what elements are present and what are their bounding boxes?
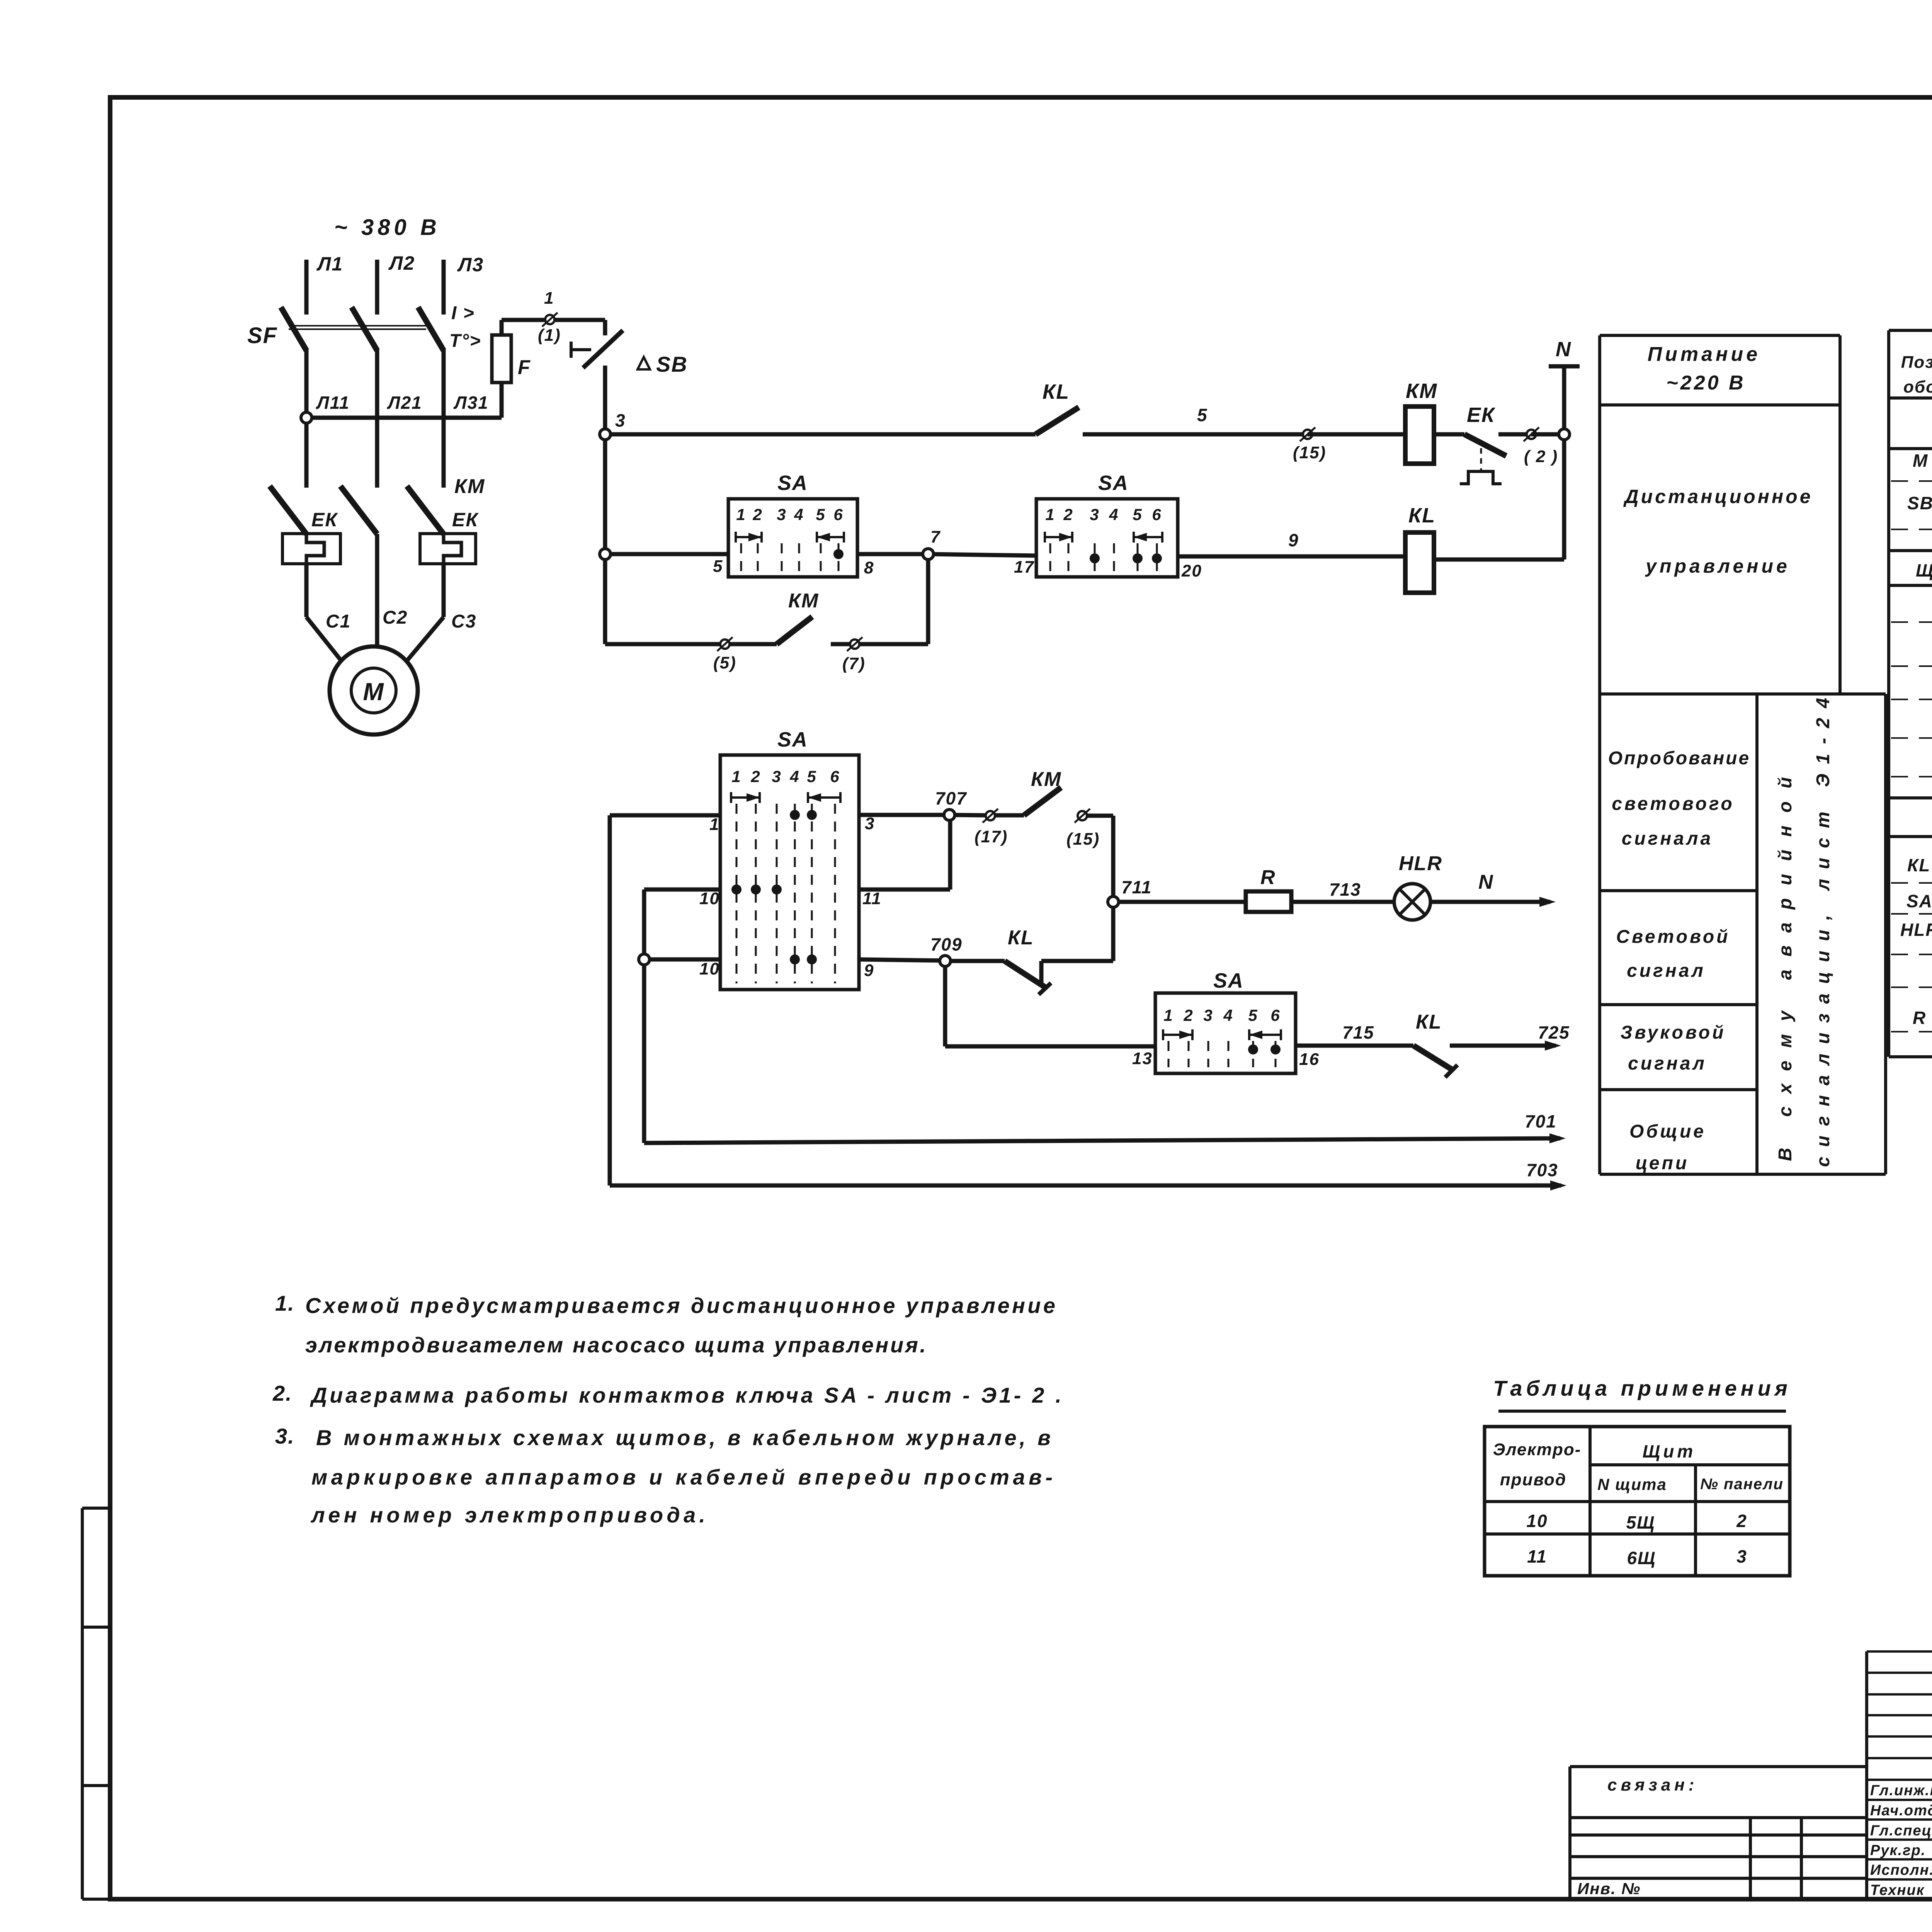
svg-text:Л1: Л1 <box>316 253 343 275</box>
svg-text:Дистанционное: Дистанционное <box>1623 486 1813 507</box>
svg-text:5: 5 <box>1248 1006 1258 1024</box>
svg-text:4: 4 <box>1223 1006 1233 1024</box>
svg-text:~ 380 В: ~ 380 В <box>334 215 440 240</box>
svg-text:SA: SA <box>777 471 808 495</box>
svg-text:НLR: НLR <box>1900 920 1932 940</box>
svg-text:17: 17 <box>1014 558 1034 577</box>
svg-text:3: 3 <box>1203 1006 1213 1024</box>
svg-text:11: 11 <box>862 889 882 908</box>
svg-text:3: 3 <box>615 410 626 430</box>
svg-text:703: 703 <box>1526 1160 1558 1180</box>
svg-text:1: 1 <box>544 289 554 308</box>
svg-text:3: 3 <box>1736 1546 1747 1566</box>
svg-text:711: 711 <box>1121 877 1152 897</box>
svg-text:4: 4 <box>794 505 804 524</box>
svg-text:Л21: Л21 <box>387 393 422 413</box>
svg-text:1.: 1. <box>275 1291 295 1315</box>
svg-text:709: 709 <box>930 934 963 954</box>
svg-text:Нач.отд.: Нач.отд. <box>1870 1803 1932 1819</box>
svg-text:Звуковой: Звуковой <box>1621 1022 1726 1043</box>
svg-text:13: 13 <box>1132 1049 1153 1068</box>
svg-text:SA: SA <box>1098 471 1129 495</box>
svg-text:F: F <box>518 356 531 379</box>
svg-text:1: 1 <box>731 767 741 786</box>
svg-text:(5): (5) <box>713 653 736 672</box>
svg-text:Гл.инж.пр.: Гл.инж.пр. <box>1870 1782 1932 1799</box>
svg-text:5: 5 <box>1197 405 1208 425</box>
svg-text:Позиц.: Позиц. <box>1901 353 1932 372</box>
svg-text:(17): (17) <box>975 827 1008 846</box>
svg-text:КМ: КМ <box>788 590 819 612</box>
svg-text:2: 2 <box>750 767 760 786</box>
svg-text:управление: управление <box>1645 555 1790 577</box>
svg-text:электродвигателем насосасо щ: электродвигателем насосасо щита управлен… <box>305 1333 927 1357</box>
svg-text:цепи: цепи <box>1636 1153 1689 1173</box>
svg-text:КМ: КМ <box>1031 768 1061 791</box>
svg-text:КМ: КМ <box>1406 379 1437 403</box>
svg-text:М: М <box>1913 451 1928 471</box>
svg-text:N: N <box>1556 338 1571 361</box>
svg-text:(7): (7) <box>842 654 866 673</box>
svg-text:(15): (15) <box>1066 830 1100 849</box>
svg-text:Л31: Л31 <box>453 393 489 413</box>
svg-text:маркировке аппаратов и кабе: маркировке аппаратов и кабелей впереди п… <box>311 1465 1054 1489</box>
svg-text:5: 5 <box>1133 505 1142 524</box>
svg-text:Рук.гр.: Рук.гр. <box>1870 1842 1926 1859</box>
svg-text:N щита: N щита <box>1597 1475 1667 1493</box>
svg-text:N: N <box>1478 871 1494 893</box>
svg-text:Щит станций управления (см: Щит станций управления (см табл. примеча… <box>1916 560 1932 580</box>
svg-text:5Щ: 5Щ <box>1626 1512 1655 1532</box>
svg-text:лен номер электропривода.: лен номер электропривода. <box>310 1503 707 1527</box>
svg-text:I >: I > <box>451 303 475 323</box>
svg-text:SA: SA <box>777 728 808 751</box>
svg-text:КL: КL <box>1416 1011 1442 1033</box>
svg-text:С3: С3 <box>451 611 476 632</box>
svg-text:SB: SB <box>656 352 688 376</box>
svg-text:ЕК: ЕК <box>452 509 479 531</box>
svg-text:3: 3 <box>1090 505 1099 524</box>
svg-text:М: М <box>363 678 384 706</box>
svg-text:10: 10 <box>699 889 720 908</box>
svg-text:715: 715 <box>1342 1022 1374 1043</box>
svg-text:6: 6 <box>1270 1006 1280 1024</box>
svg-text:3.: 3. <box>275 1424 295 1448</box>
svg-text:Световой: Световой <box>1616 927 1730 947</box>
svg-text:R: R <box>1913 1008 1926 1028</box>
svg-text:10: 10 <box>1526 1511 1548 1531</box>
svg-text:Щит: Щит <box>1643 1441 1696 1461</box>
svg-text:Схемой предусматривается д: Схемой предусматривается дистанционное у… <box>305 1293 1057 1318</box>
svg-text:5: 5 <box>807 767 816 786</box>
svg-text:С2: С2 <box>383 607 408 628</box>
svg-text:Л11: Л11 <box>316 393 350 413</box>
svg-text:Гл.спец,: Гл.спец, <box>1870 1823 1932 1839</box>
svg-text:16: 16 <box>1299 1050 1320 1069</box>
svg-text:сигнал: сигнал <box>1627 961 1706 981</box>
svg-text:связан:: связан: <box>1607 1776 1698 1794</box>
svg-text:Исполн.: Исполн. <box>1870 1862 1932 1878</box>
svg-text:ЕК: ЕК <box>1467 403 1496 427</box>
svg-text:3: 3 <box>865 814 875 833</box>
svg-text:SA: SA <box>1213 969 1244 992</box>
svg-text:Инв. №: Инв. № <box>1577 1879 1641 1898</box>
svg-text:2: 2 <box>1736 1511 1747 1531</box>
svg-text:Опробование: Опробование <box>1608 748 1750 769</box>
svg-text:Электро-: Электро- <box>1493 1440 1582 1459</box>
svg-text:6: 6 <box>830 767 840 786</box>
svg-text:( 2 ): ( 2 ) <box>1524 447 1558 466</box>
svg-text:КL: КL <box>1907 855 1930 875</box>
svg-text:светового: светового <box>1612 794 1734 814</box>
svg-text:T°>: T°> <box>449 331 481 351</box>
svg-text:3: 3 <box>777 505 786 524</box>
svg-text:707: 707 <box>935 788 967 808</box>
svg-text:КL: КL <box>1008 927 1034 949</box>
svg-text:Техник: Техник <box>1870 1882 1925 1898</box>
svg-text:2: 2 <box>1183 1006 1193 1024</box>
svg-text:КL: КL <box>1408 504 1435 527</box>
svg-text:5: 5 <box>713 557 723 576</box>
svg-text:7: 7 <box>930 527 941 546</box>
svg-text:5: 5 <box>816 505 825 524</box>
svg-text:HLR: HLR <box>1399 852 1442 875</box>
svg-text:2: 2 <box>1063 505 1073 524</box>
svg-text:10: 10 <box>699 959 720 978</box>
svg-text:Питание: Питание <box>1648 343 1760 366</box>
svg-text:Л3: Л3 <box>457 254 484 276</box>
svg-text:11: 11 <box>1527 1546 1547 1566</box>
svg-text:6: 6 <box>1152 505 1162 524</box>
svg-text:Общие: Общие <box>1629 1121 1706 1142</box>
svg-text:Таблица применения: Таблица применения <box>1493 1376 1791 1400</box>
svg-text:В монтажных схемах щитов, в: В монтажных схемах щитов, в кабельном жу… <box>316 1425 1052 1450</box>
svg-text:1: 1 <box>1163 1006 1173 1024</box>
svg-text:SВ: SВ <box>1907 493 1932 513</box>
svg-text:SА: SА <box>1906 891 1932 911</box>
svg-text:привод: привод <box>1500 1470 1566 1489</box>
svg-text:1: 1 <box>709 815 719 834</box>
svg-text:4: 4 <box>789 767 799 786</box>
svg-text:9: 9 <box>1288 530 1299 550</box>
svg-text:6: 6 <box>833 505 843 524</box>
svg-text:(15): (15) <box>1293 443 1326 462</box>
svg-text:3: 3 <box>772 767 781 786</box>
svg-text:713: 713 <box>1329 879 1361 900</box>
svg-text:8: 8 <box>864 558 874 577</box>
svg-text:№ панели: № панели <box>1700 1476 1784 1493</box>
svg-text:ЕК: ЕК <box>311 509 338 531</box>
svg-text:С1: С1 <box>326 611 351 632</box>
svg-text:2.: 2. <box>272 1381 293 1405</box>
svg-text:КL: КL <box>1043 380 1070 403</box>
svg-text:2: 2 <box>752 505 762 524</box>
svg-text:Л2: Л2 <box>388 252 415 274</box>
svg-text:R: R <box>1260 866 1276 889</box>
svg-text:обозн: обозн <box>1903 378 1932 396</box>
svg-text:сигнал: сигнал <box>1628 1053 1707 1074</box>
svg-text:КМ: КМ <box>454 475 485 498</box>
svg-text:~220 В: ~220 В <box>1666 372 1745 394</box>
svg-text:1: 1 <box>1045 505 1055 524</box>
svg-text:SF: SF <box>247 323 277 348</box>
svg-text:(1): (1) <box>538 326 561 345</box>
svg-text:4: 4 <box>1109 505 1119 524</box>
svg-text:9: 9 <box>864 961 874 980</box>
svg-text:сигнала: сигнала <box>1622 828 1713 849</box>
svg-text:725: 725 <box>1538 1022 1570 1043</box>
svg-text:1: 1 <box>736 505 746 524</box>
svg-text:6Щ: 6Щ <box>1627 1548 1656 1568</box>
svg-text:20: 20 <box>1181 561 1202 580</box>
svg-text:701: 701 <box>1525 1111 1557 1131</box>
